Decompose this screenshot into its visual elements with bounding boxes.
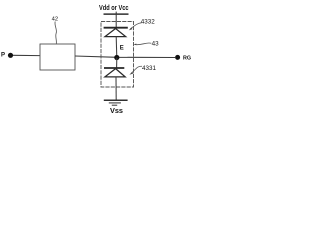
svg-text:43: 43 [152, 41, 160, 48]
leader arrow 4332 [130, 23, 141, 29]
svg-text:E: E [120, 46, 124, 52]
svg-text:Vss: Vss [110, 106, 123, 115]
svg-text:4332: 4332 [141, 19, 156, 26]
wire diode 4332 to node E [115, 37, 118, 58]
leader squiggle 42 [55, 22, 57, 44]
resistor block 42 [40, 44, 75, 70]
leader 43 [135, 43, 152, 45]
dashed box 43 [101, 22, 134, 88]
svg-text:RG: RG [183, 56, 191, 62]
ground Vss [104, 99, 128, 101]
svg-text:4331: 4331 [142, 65, 157, 72]
wire P to box 42 [13, 54, 40, 56]
wire diode 4331 to Vss [115, 77, 117, 100]
terminal dot P [8, 53, 13, 58]
power rail Vdd [115, 12, 117, 15]
leader arrow 4331 [131, 66, 142, 73]
wire Vdd to diode 4332 [115, 14, 117, 28]
diode 4332 [104, 27, 128, 29]
svg-text:Vdd or Vcc: Vdd or Vcc [99, 5, 129, 12]
node E dot [114, 55, 119, 60]
wire node E to diode 4331 [116, 58, 118, 69]
wire box 42 to node E to RG [75, 56, 175, 58]
terminal dot RG [175, 55, 180, 60]
svg-text:P: P [1, 53, 5, 59]
diode 4331 [104, 67, 124, 69]
